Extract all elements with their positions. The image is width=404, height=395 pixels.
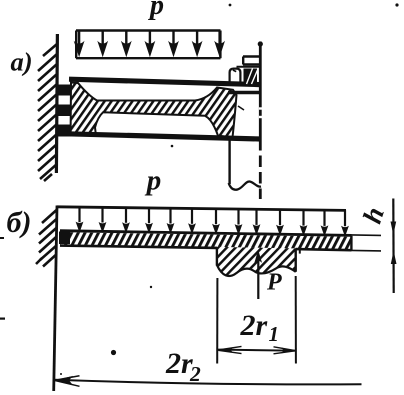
ext line 2r1 left xyxy=(216,278,218,364)
plate bottom edge left xyxy=(60,246,217,248)
axis scan gaps xyxy=(259,109,262,118)
extension line bottom (h) xyxy=(352,249,382,252)
wall hatching b xyxy=(36,210,57,267)
axis top blob xyxy=(258,41,263,46)
wall line a xyxy=(56,34,57,173)
dome (washer) xyxy=(230,69,241,83)
step line xyxy=(237,66,261,68)
boss ledge tick xyxy=(299,249,301,254)
boss left edge xyxy=(216,247,218,266)
hatched nut block xyxy=(244,69,258,84)
load line b xyxy=(57,207,346,211)
svg-text:2r: 2r xyxy=(165,347,193,380)
bolt 2 xyxy=(58,105,72,117)
small scribble on boss xyxy=(238,106,244,110)
h dimension line xyxy=(392,199,395,294)
wall hatching a xyxy=(38,44,57,181)
center axis line xyxy=(259,42,262,140)
plate bottom edge right xyxy=(296,249,352,250)
membrane top line xyxy=(69,79,261,84)
wall + extension line (left) xyxy=(54,206,57,392)
svg-text:p: p xyxy=(148,0,164,21)
svg-text:а): а) xyxy=(11,47,33,77)
second bar (lower washer) xyxy=(228,91,261,94)
svg-text:б): б) xyxy=(7,206,32,239)
arrowhead 2r1 right xyxy=(282,348,296,354)
plate left cap xyxy=(59,232,70,245)
svg-text:2r: 2r xyxy=(240,309,268,342)
svg-text:p: p xyxy=(144,165,162,197)
arrowhead 2r2 left xyxy=(55,376,73,385)
arrowhead P xyxy=(254,250,262,263)
boss hatched region xyxy=(217,247,296,276)
svg-text:2: 2 xyxy=(189,362,201,386)
bolt 1 xyxy=(58,85,72,96)
membrane bottom line xyxy=(67,134,261,139)
scan specks xyxy=(111,350,116,355)
arrowhead 2r1 left xyxy=(218,347,233,353)
plate hatched strip xyxy=(60,232,351,249)
rod below membrane xyxy=(228,141,230,185)
arrowhead h lower xyxy=(391,251,397,264)
ext line 2r1 right xyxy=(295,276,297,364)
force P arrow xyxy=(257,258,259,299)
svg-text:1: 1 xyxy=(269,322,280,346)
dome inner tick xyxy=(233,70,236,72)
rod break line xyxy=(229,181,261,189)
dim line 2r1 xyxy=(217,350,295,351)
load rectangle a xyxy=(76,31,221,59)
plate right edge xyxy=(350,236,352,251)
arrowhead h upper xyxy=(391,222,397,235)
dim line 2r2 xyxy=(55,380,362,385)
membrane hatched section xyxy=(71,83,237,138)
load arrows a xyxy=(74,31,225,57)
load arrows b xyxy=(76,207,349,237)
plate top edge xyxy=(60,231,352,236)
boss wavy break edge xyxy=(217,265,296,276)
extension line top (h) xyxy=(352,234,382,237)
boss right edge xyxy=(295,248,297,271)
svg-text:P: P xyxy=(266,270,282,296)
bolt 3 xyxy=(58,125,72,137)
nut box top xyxy=(230,57,261,84)
